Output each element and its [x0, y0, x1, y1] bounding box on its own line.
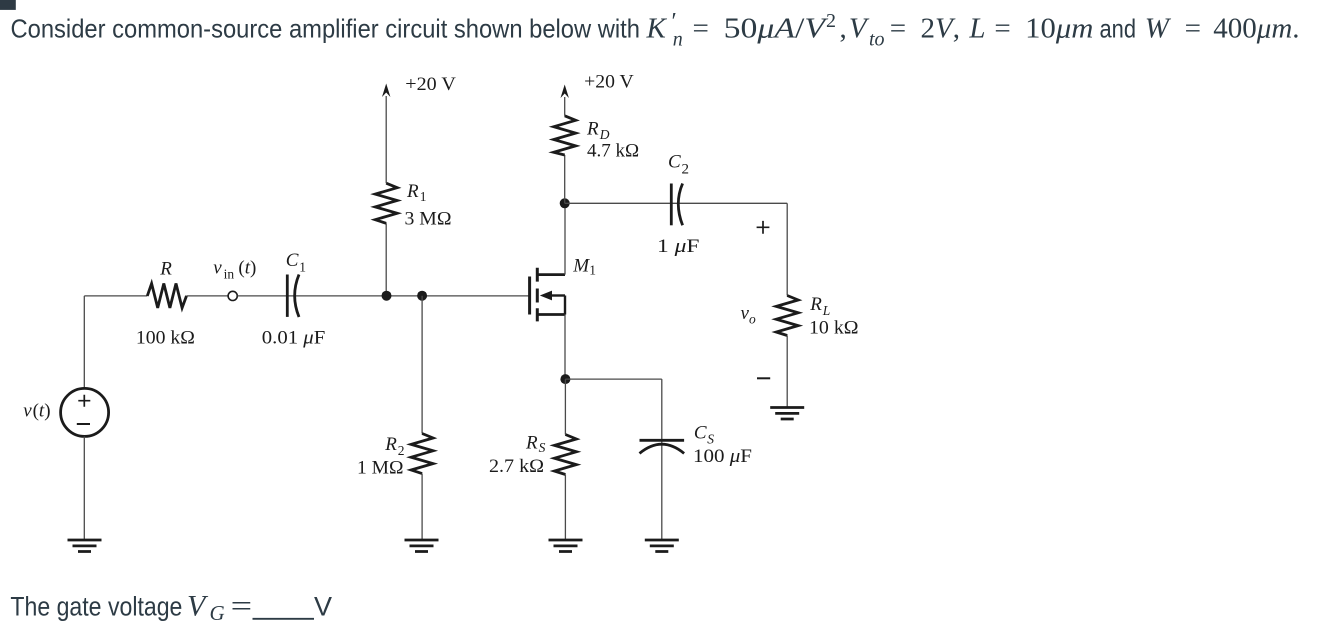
- svg-text:and: and: [1100, 13, 1137, 43]
- wire: R1 branch vertical (dot to resistor): [385, 223, 387, 295]
- title math K'n: [646, 9, 1094, 51]
- title math W = 400um.: [1145, 13, 1300, 45]
- svg-text:10 kΩ: 10 kΩ: [809, 318, 859, 339]
- wire: node vin to MOSFET gate (passes through C1): [237, 295, 529, 297]
- corner square: [0, 0, 16, 10]
- MOSFET M1 drain contact: [537, 273, 565, 276]
- svg-text:1: 1: [299, 260, 306, 275]
- svg-text:R: R: [586, 118, 599, 139]
- svg-text:1: 1: [589, 263, 596, 278]
- wire: left vertical down to source v(t): [83, 296, 85, 389]
- wire: drain node to RD: [564, 155, 566, 203]
- wire: R2 to ground: [421, 474, 423, 539]
- resistor R (100k) horizontal: [147, 284, 186, 308]
- ground under RS: [549, 540, 583, 552]
- svg-text:2: 2: [682, 162, 690, 178]
- svg-text:S: S: [539, 440, 546, 455]
- svg-text:The gate voltage: The gate voltage: [10, 592, 182, 622]
- MOSFET M1 body arrow head: [540, 291, 552, 301]
- capacitor C2 right curved plate: [678, 184, 682, 226]
- answer blank line: [253, 618, 315, 620]
- svg-text:=: =: [890, 13, 906, 45]
- capacitor CS bottom curved plate: [640, 444, 685, 453]
- svg-text:C: C: [668, 152, 681, 173]
- resistor R2 vertical: [411, 434, 433, 474]
- svg-text:+20 V: +20 V: [584, 72, 634, 93]
- resistor R1 vertical: [375, 183, 397, 223]
- svg-text:(t): (t): [238, 258, 256, 279]
- svg-text:1 MΩ: 1 MΩ: [357, 457, 404, 478]
- wire: source down to node: [564, 315, 566, 380]
- wire: R1 to +20V arrow: [385, 96, 387, 183]
- resistor RD vertical: [554, 116, 576, 155]
- wire: source node to RS: [564, 379, 566, 434]
- svg-text:10μm: 10μm: [1025, 13, 1093, 45]
- wire: R2 branch vertical: [421, 296, 423, 434]
- svg-text:3 MΩ: 3 MΩ: [405, 209, 452, 230]
- svg-text:Consider common-source amplifi: Consider common-source amplifier circuit…: [11, 13, 641, 43]
- svg-text:S: S: [707, 432, 714, 447]
- MOSFET M1 source contact: [537, 313, 565, 316]
- MOSFET M1 body-source tie: [564, 296, 566, 315]
- MOSFET M1 channel segments: [536, 268, 539, 322]
- capacitor C1 right curved plate: [295, 275, 299, 318]
- svg-text:400μm.: 400μm.: [1213, 13, 1299, 45]
- svg-text:n: n: [673, 29, 683, 51]
- source plus sign: [78, 395, 90, 407]
- svg-text:2: 2: [826, 10, 836, 32]
- svg-text:M: M: [572, 255, 590, 276]
- wire: output corner down to RL: [786, 203, 788, 295]
- bottom math VG =: [187, 590, 252, 626]
- wire: RD to +20V arrow: [564, 97, 566, 116]
- junction dot source: [560, 374, 570, 384]
- plus sign at output: [757, 221, 770, 234]
- ground under v(t): [68, 540, 102, 552]
- svg-text:100 μF: 100 μF: [693, 446, 752, 467]
- svg-text:(t): (t): [33, 401, 51, 422]
- svg-text:+20 V: +20 V: [405, 74, 456, 95]
- svg-text:L: L: [968, 13, 985, 45]
- junction dot drain: [560, 198, 570, 208]
- svg-text:V: V: [849, 13, 870, 45]
- svg-text:v: v: [213, 258, 222, 279]
- svg-text:4.7 kΩ: 4.7 kΩ: [587, 140, 639, 161]
- svg-text:V: V: [314, 592, 332, 622]
- svg-text:R: R: [159, 258, 172, 279]
- minus sign at output: [757, 377, 770, 379]
- svg-text:V: V: [187, 590, 209, 623]
- svg-text:=: =: [1185, 13, 1201, 45]
- svg-text:W: W: [1145, 13, 1172, 45]
- svg-text:C: C: [286, 250, 299, 271]
- junction dot gate-R1: [382, 291, 392, 301]
- wire: drain up to node: [564, 203, 566, 274]
- svg-text:o: o: [749, 312, 756, 327]
- capacitor C2 left plate: [670, 184, 673, 226]
- svg-text:in: in: [224, 267, 235, 282]
- svg-text:C: C: [694, 423, 707, 444]
- ground under RL: [770, 408, 804, 420]
- svg-text:R: R: [406, 181, 419, 202]
- svg-text:1: 1: [420, 189, 427, 204]
- source minus sign: [77, 423, 90, 425]
- svg-text:R: R: [525, 433, 538, 454]
- svg-text:=: =: [693, 13, 709, 45]
- MOSFET M1 body arrow line: [550, 294, 565, 296]
- resistor RS vertical: [554, 435, 576, 475]
- svg-text:K: K: [646, 13, 668, 45]
- node vin terminal circle: [228, 291, 237, 300]
- svg-text:0.01 μF: 0.01 μF: [262, 328, 326, 349]
- svg-text:L: L: [822, 303, 831, 318]
- wire: drain node to output corner (passes through C2): [565, 202, 788, 204]
- capacitor CS top plate: [640, 439, 685, 442]
- svg-text:1 μF: 1 μF: [657, 236, 700, 257]
- junction dot gate-R2: [417, 291, 427, 301]
- wire: source to ground: [83, 436, 85, 539]
- wire: RS to ground: [564, 475, 566, 540]
- +20V arrow head (left): [382, 84, 390, 98]
- svg-text:G: G: [210, 601, 225, 625]
- wire: source node to CS branch: [565, 378, 661, 380]
- svg-text:50μA/V: 50μA/V: [724, 13, 829, 45]
- svg-text:v: v: [23, 401, 32, 422]
- +20V arrow head (right): [561, 85, 569, 99]
- svg-text:R: R: [384, 434, 397, 455]
- svg-text:,: ,: [840, 13, 847, 45]
- svg-text:=: =: [231, 590, 253, 623]
- svg-text:100 kΩ: 100 kΩ: [136, 328, 195, 349]
- ground under R2: [405, 540, 439, 552]
- ground under CS: [645, 540, 679, 552]
- wire: RL to ground: [786, 336, 788, 407]
- MOSFET M1 gate bar: [528, 277, 531, 315]
- svg-text:2: 2: [398, 443, 405, 458]
- capacitor C1 left plate: [286, 275, 289, 317]
- svg-text:2V,: 2V,: [921, 13, 960, 45]
- wire: CS branch vertical (passes through CS): [661, 379, 663, 539]
- wire: top-left horizontal to resistor R: [84, 295, 147, 297]
- svg-text:to: to: [869, 29, 885, 51]
- svg-text:2.7 kΩ: 2.7 kΩ: [489, 456, 544, 477]
- source v(t) circle: [61, 388, 109, 436]
- svg-text:R: R: [809, 294, 822, 315]
- resistor RL vertical: [776, 296, 798, 336]
- svg-text:=: =: [994, 13, 1010, 45]
- wire: resistor R to node vin: [187, 295, 228, 297]
